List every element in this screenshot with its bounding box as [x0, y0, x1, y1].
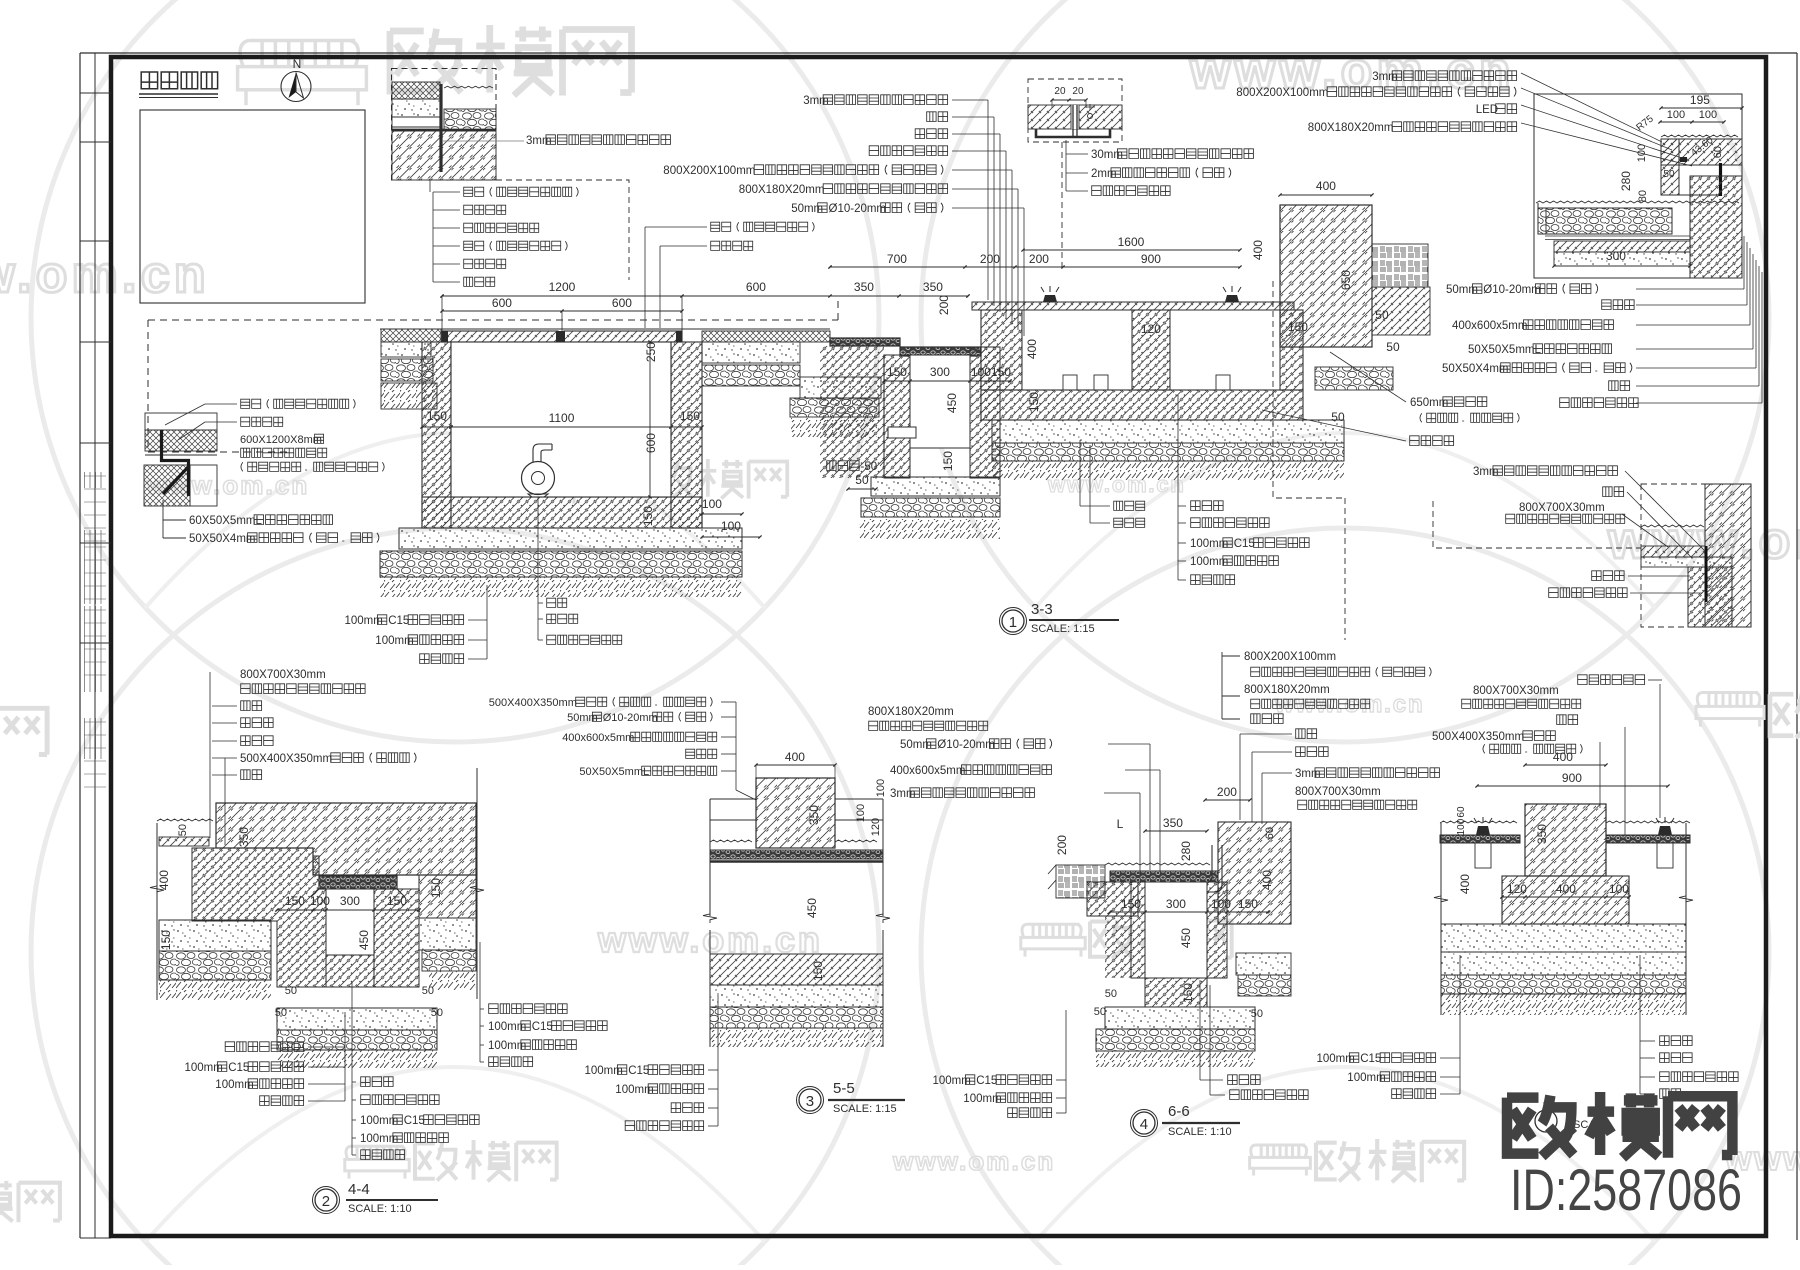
svg-text:800X180X20mm: 800X180X20mm: [1244, 684, 1330, 696]
svg-text:450: 450: [805, 898, 819, 918]
svg-text:50: 50: [1105, 988, 1117, 1000]
svg-text:200: 200: [937, 295, 951, 315]
svg-text:400x600x5mm: 400x600x5mm: [890, 765, 965, 777]
5-5 stone: [756, 778, 835, 848]
svg-text:100: 100: [875, 779, 887, 797]
svg-text:450: 450: [945, 393, 959, 413]
svg-text:400: 400: [1251, 240, 1265, 260]
5-5 sides: [709, 799, 711, 916]
detail C concrete below: [392, 131, 496, 180]
svg-text:800X700X30mm: 800X700X30mm: [1473, 685, 1559, 697]
svg-text:50: 50: [1386, 340, 1400, 354]
rock 650: [1280, 205, 1372, 347]
svg-text:C15: C15: [388, 615, 409, 627]
svg-text:400: 400: [1316, 179, 1336, 193]
svg-text:SCALE: 1:15: SCALE: 1:15: [833, 1103, 897, 1115]
svg-text:150: 150: [1121, 897, 1141, 911]
detail E bracket: [1036, 129, 1110, 137]
svg-text:100: 100: [702, 497, 722, 511]
svg-text:100: 100: [1609, 882, 1629, 896]
6-6 channel soil: [1105, 916, 1131, 978]
svg-text:400: 400: [1458, 874, 1472, 894]
svg-text:100: 100: [721, 519, 741, 533]
svg-text:150: 150: [641, 506, 655, 526]
basin fittings: [1063, 375, 1077, 390]
svg-text:L: L: [1117, 817, 1124, 831]
4-4 bottom labels: [361, 1077, 393, 1087]
6-6 water: [1105, 863, 1210, 865]
svg-text:400: 400: [1553, 750, 1573, 764]
svg-text:900: 900: [1141, 252, 1161, 266]
svg-text:50X50X5mmL: 50X50X5mmL: [579, 766, 649, 778]
3-3 base slab: [399, 528, 742, 549]
5-5 stone dim: [807, 805, 821, 825]
dashed boundary around trough: [1273, 281, 1345, 498]
svg-text:1600: 1600: [1118, 235, 1145, 249]
svg-text:150: 150: [680, 409, 700, 423]
6-6 right mass: [1218, 822, 1291, 924]
trough nozzles: [1043, 295, 1057, 302]
svg-text:-50: -50: [861, 461, 878, 473]
svg-text:350: 350: [807, 805, 821, 825]
svg-text:50X50X5mmL: 50X50X5mmL: [1468, 344, 1541, 356]
6-6 dims: [1205, 799, 1250, 801]
svg-text:50: 50: [431, 1007, 443, 1019]
marker 3-3: [1002, 610, 1024, 632]
svg-text:100: 100: [1456, 818, 1467, 835]
svg-text:50: 50: [1251, 1008, 1263, 1020]
detail F outline: [1534, 94, 1742, 278]
7-7 layers: [1441, 924, 1686, 952]
dashed region: [148, 319, 838, 321]
svg-text:50: 50: [275, 1007, 287, 1019]
svg-text:C15: C15: [628, 1065, 649, 1077]
svg-text:350: 350: [854, 280, 874, 294]
3-3 drain pit: [820, 346, 884, 478]
svg-text:50: 50: [1094, 1006, 1106, 1018]
svg-text:Ø10-20mm: Ø10-20mm: [603, 712, 658, 724]
4-4 channel interior: [326, 889, 374, 987]
svg-text:60: 60: [1264, 827, 1276, 839]
3-3 bottom labels: [547, 598, 567, 607]
big omw logo: [1507, 1092, 1732, 1158]
svg-text:100: 100: [1699, 109, 1717, 121]
G content: [1705, 484, 1751, 627]
svg-text:20: 20: [1072, 86, 1084, 97]
3-3 deck right of pit: [702, 331, 830, 342]
svg-text:800X700X30mm: 800X700X30mm: [240, 669, 326, 681]
6-6 left block: [1087, 882, 1138, 916]
svg-text:700: 700: [887, 252, 907, 266]
svg-text:150: 150: [1027, 392, 1041, 412]
svg-text:50: 50: [1331, 410, 1345, 424]
svg-text:800X700X30mm: 800X700X30mm: [1519, 502, 1605, 514]
left detail dark angle: [160, 430, 190, 496]
5-5 lower layers: [710, 954, 883, 985]
svg-text:60: 60: [1712, 146, 1724, 158]
svg-text:800X180X20mm: 800X180X20mm: [1308, 122, 1394, 134]
3-3 dims top: [1023, 249, 1240, 251]
detail E dims: [1052, 99, 1086, 101]
svg-text:1: 1: [1009, 614, 1017, 631]
weave patch: [1372, 244, 1428, 287]
4-4 grate: [319, 876, 397, 889]
svg-text:450: 450: [357, 930, 371, 950]
svg-text:4: 4: [1140, 1116, 1148, 1133]
4-4 left slab: [157, 819, 213, 821]
svg-text:50X50X4mm: 50X50X4mm: [1442, 363, 1508, 375]
svg-text:20: 20: [1054, 86, 1066, 97]
svg-text:5-5: 5-5: [833, 1080, 855, 1097]
watermark logos: [238, 40, 367, 105]
svg-text:400: 400: [1556, 882, 1576, 896]
svg-text:150: 150: [1238, 897, 1258, 911]
3-3 pit walls: [422, 342, 451, 528]
svg-text:www.om.cn: www.om.cn: [892, 1146, 1055, 1176]
svg-text:150: 150: [429, 878, 443, 898]
svg-text:200: 200: [1029, 252, 1049, 266]
3-3 left ground layers: [381, 329, 441, 342]
svg-text:Ø10-20mm: Ø10-20mm: [829, 203, 887, 215]
svg-text:100: 100: [855, 804, 867, 822]
svg-text:450: 450: [1179, 928, 1193, 948]
svg-text:C15: C15: [976, 1075, 997, 1087]
svg-text:150: 150: [991, 365, 1011, 379]
detail C slab line: [392, 129, 496, 132]
svg-text:50X50X4mm: 50X50X4mm: [189, 533, 255, 545]
F LED: [1680, 157, 1687, 162]
7-7 stone: [1525, 804, 1606, 876]
svg-text:600: 600: [612, 296, 632, 310]
svg-text:100: 100: [310, 894, 330, 908]
watermark circles: [31, 0, 879, 742]
4-4 left foundation: [159, 920, 271, 951]
7-7 slabs: [1440, 835, 1520, 843]
frame: [80, 52, 1797, 54]
4-4 concrete mass: [192, 848, 326, 987]
svg-text:SCALE: 1:10: SCALE: 1:10: [348, 1203, 412, 1215]
svg-text:100: 100: [1667, 109, 1685, 121]
svg-text:350: 350: [237, 827, 251, 847]
svg-text:50: 50: [1375, 308, 1389, 322]
G dashed boundary: [1433, 501, 1641, 548]
6-6 foundation: [1105, 1007, 1255, 1029]
detail C water/gravel: [444, 86, 493, 88]
svg-text:1200: 1200: [549, 280, 576, 294]
index plan title: [141, 72, 217, 89]
detail C leader: 3mm steel plate: [443, 140, 524, 142]
7-7 base: [1502, 876, 1629, 924]
svg-text:150: 150: [811, 961, 825, 981]
svg-text:200: 200: [1055, 835, 1069, 855]
svg-text:120: 120: [1507, 882, 1527, 896]
5-5 slab lines: [710, 798, 756, 800]
svg-text:800X200X100mm: 800X200X100mm: [1236, 87, 1328, 99]
3-3 drain foundation: [871, 477, 1000, 496]
svg-text:900: 900: [1562, 771, 1582, 785]
3-3 dims drain: [884, 380, 1010, 382]
7-7 nozzles: [1476, 826, 1490, 835]
svg-text:150: 150: [1181, 983, 1195, 1003]
svg-text:800X700X30mm: 800X700X30mm: [1295, 786, 1381, 798]
svg-text:500X400X350mm: 500X400X350mm: [489, 697, 577, 709]
svg-text:www.om.cn: www.om.cn: [0, 246, 210, 304]
svg-text:50: 50: [422, 985, 434, 997]
detail C box: [392, 69, 497, 181]
svg-text:1100: 1100: [549, 411, 575, 425]
3-3 dims pit: [649, 342, 651, 497]
detail C label column: [464, 187, 578, 196]
3-3 gravel: [380, 551, 742, 577]
svg-text:150: 150: [285, 894, 305, 908]
svg-text:2: 2: [322, 1193, 330, 1210]
svg-text:195: 195: [1690, 93, 1710, 107]
svg-text:150: 150: [1288, 320, 1308, 334]
F dims: [1661, 107, 1742, 109]
svg-text:200: 200: [980, 252, 1000, 266]
svg-text:500X400X350mm: 500X400X350mm: [1432, 731, 1524, 743]
4-4 right bands: [419, 918, 476, 950]
svg-text:120: 120: [1141, 322, 1161, 336]
svg-text:600: 600: [492, 296, 512, 310]
svg-text:Ø10-20mm: Ø10-20mm: [1483, 284, 1541, 296]
svg-text:650: 650: [1339, 270, 1353, 290]
left detail slab: [145, 413, 217, 430]
trough slab: [972, 302, 1294, 310]
F coping: [1661, 135, 1738, 137]
svg-text:100: 100: [1211, 897, 1231, 911]
F steel plate dark: [1719, 163, 1722, 196]
trough walls: [981, 310, 1022, 390]
svg-text:3: 3: [806, 1093, 814, 1110]
svg-text:C15: C15: [228, 1062, 249, 1074]
3-3 cover slabs: [380, 328, 690, 330]
4-4 left labels: [225, 1042, 303, 1052]
svg-text:150: 150: [427, 409, 447, 423]
dashed link from C to section: [496, 180, 629, 280]
detail E hatch band: [1028, 105, 1122, 129]
svg-text:400x600x5mm: 400x600x5mm: [562, 732, 634, 744]
svg-text:60X50X5mmL: 60X50X5mmL: [189, 515, 262, 527]
svg-text:800X200X100mm: 800X200X100mm: [1244, 651, 1336, 663]
label 800X200 bottom of trough (merged with 6-6 block): [1221, 652, 1223, 719]
3-3 drain pipe stub: [888, 427, 916, 438]
svg-text:300: 300: [1606, 249, 1626, 263]
svg-text:SCALE: 1:15: SCALE: 1:15: [1031, 623, 1095, 635]
svg-text:C15: C15: [1360, 1053, 1381, 1065]
detail E dashed box: [1028, 79, 1122, 142]
svg-text:6-6: 6-6: [1168, 1103, 1190, 1120]
svg-text:350: 350: [1535, 824, 1549, 844]
svg-text:150: 150: [887, 365, 907, 379]
4-4 dims: [177, 824, 189, 836]
svg-text:300: 300: [340, 894, 360, 908]
svg-text:N: N: [293, 57, 302, 71]
svg-text:LED: LED: [1476, 104, 1498, 116]
4-4 right labels: [489, 1004, 567, 1014]
svg-text:C15: C15: [1234, 538, 1255, 550]
F left edge: [1537, 203, 1539, 234]
3-3 drain strip dark: [830, 338, 900, 346]
svg-text:C15: C15: [404, 1115, 425, 1127]
svg-text:400x600x5mm: 400x600x5mm: [1452, 320, 1527, 332]
trough foundation: [992, 420, 1344, 443]
svg-text:ID:2587086: ID:2587086: [1510, 1158, 1742, 1223]
svg-text:350: 350: [923, 280, 943, 294]
3-3 pump: [522, 462, 555, 495]
6-6 marker: [1133, 1112, 1155, 1134]
svg-text:3-3: 3-3: [1031, 601, 1053, 618]
svg-text:300: 300: [1166, 897, 1186, 911]
4-4 rock: [216, 803, 476, 875]
svg-text:100: 100: [971, 365, 991, 379]
svg-text:400: 400: [157, 870, 171, 890]
svg-text:280: 280: [1179, 841, 1193, 861]
svg-text:60: 60: [1456, 806, 1467, 818]
4-4 center foundation: [277, 1008, 437, 1030]
svg-text:120: 120: [870, 818, 882, 836]
6-6 channel: [1131, 882, 1145, 978]
trough base: [981, 390, 1303, 420]
svg-text:150: 150: [387, 894, 407, 908]
svg-text:50: 50: [177, 824, 189, 836]
F water+gravel: [1536, 201, 1739, 203]
7-7 marker: [1535, 1110, 1557, 1132]
svg-text:400: 400: [785, 750, 805, 764]
north arrow: [281, 72, 311, 102]
svg-text:800X200X100mm: 800X200X100mm: [663, 165, 755, 177]
svg-text:80: 80: [1637, 190, 1649, 202]
3-3 mid soil wedge: [800, 377, 881, 398]
svg-text:600: 600: [644, 433, 658, 453]
detail C paving layers: [392, 82, 440, 99]
svg-text:600X1200X8mm: 600X1200X8mm: [240, 434, 322, 446]
5-5 marker: [799, 1089, 821, 1111]
G lower labels (detail7 top): [1578, 675, 1645, 685]
svg-text:350: 350: [1163, 816, 1183, 830]
5-5 dims right: [875, 779, 887, 797]
right ground hatch: [1372, 287, 1430, 335]
svg-text:400: 400: [1260, 870, 1274, 890]
right gravel pocket: [1315, 367, 1393, 390]
4-4 side boundary lines: [156, 823, 158, 1000]
svg-text:500X400X350mm: 500X400X350mm: [240, 753, 332, 765]
svg-text:400: 400: [1025, 339, 1039, 359]
5-5 dark band: [710, 850, 883, 859]
detail C steel waterstop: [439, 84, 442, 172]
svg-text:150: 150: [159, 930, 173, 950]
3-3 soil: [380, 577, 742, 597]
svg-text:50: 50: [285, 985, 297, 997]
svg-text:800X180X20mm: 800X180X20mm: [739, 184, 825, 196]
svg-text:50: 50: [855, 473, 869, 487]
F right wall: [1690, 176, 1742, 278]
svg-text:SCALE: 1:10: SCALE: 1:10: [1168, 1126, 1232, 1138]
6-6 overflow pipe: [1206, 845, 1222, 892]
svg-text:250: 250: [644, 342, 658, 362]
6-6 dark band: [1110, 871, 1218, 882]
4-4 marker: [315, 1189, 337, 1211]
svg-text:280: 280: [1619, 171, 1633, 191]
svg-text:4-4: 4-4: [348, 1181, 370, 1198]
svg-text:150: 150: [941, 451, 955, 471]
left detail labels: [241, 399, 355, 408]
6-6 right labels: [1296, 729, 1317, 739]
svg-text:50: 50: [1663, 169, 1675, 180]
svg-text:Ø10-20mm: Ø10-20mm: [937, 739, 995, 751]
svg-text:800X180X20mm: 800X180X20mm: [868, 706, 954, 718]
6-6 weave band: [1056, 865, 1105, 898]
svg-text:200: 200: [1217, 785, 1237, 799]
svg-text:C15: C15: [532, 1021, 553, 1033]
index plan rect: [140, 110, 365, 303]
svg-text:600: 600: [746, 280, 766, 294]
7-7 water: [1440, 821, 1517, 823]
svg-text:300: 300: [930, 365, 950, 379]
